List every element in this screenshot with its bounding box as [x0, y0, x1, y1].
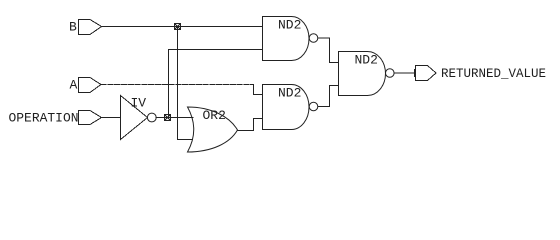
svg-text:ND2: ND2 — [278, 85, 301, 100]
wire inverter output to OR2 upper input — [156, 117, 193, 119]
wire OR2 output to U2 lower input — [238, 119, 263, 131]
nand U2 (middle ND2) — [263, 85, 292, 130]
port RETURNED_VALUE — [416, 66, 437, 81]
node junction J1 on net B — [175, 24, 181, 30]
svg-text:ND2: ND2 — [278, 17, 301, 32]
svg-text:A: A — [70, 78, 78, 93]
svg-text:RETURNED_VALUE: RETURNED_VALUE — [441, 66, 546, 81]
wire OPERATION to inverter — [102, 117, 121, 119]
wire net B horizontal — [102, 26, 263, 28]
node junction J2 on inverter output — [165, 115, 171, 121]
inverter IV bubble — [147, 113, 156, 122]
nand U1 bubble — [309, 34, 318, 43]
inverter IV — [121, 96, 148, 140]
wire U2 output to U3 lower input — [318, 86, 339, 107]
wire U1 output to U3 upper input — [318, 38, 339, 63]
svg-text:OR2: OR2 — [203, 108, 226, 123]
svg-text:OPERATION: OPERATION — [9, 111, 79, 126]
nand U1 (top ND2) — [263, 17, 292, 61]
or-gate OR2 — [188, 107, 238, 152]
port RETURNED_VALUE tick — [414, 70, 416, 77]
wire net A (dashed) — [101, 84, 254, 86]
wire net B vertical to OR2 lower input — [178, 27, 193, 140]
nand U2 bubble — [309, 102, 318, 111]
wire inverter output up to U1 lower input — [169, 50, 263, 118]
nand U3 (output ND2) — [339, 52, 368, 96]
wire U3 output to port — [394, 72, 414, 74]
port B — [79, 20, 102, 35]
svg-text:IV: IV — [131, 96, 147, 111]
wire net A step down to U2 input — [254, 85, 263, 95]
port OPERATION — [79, 111, 102, 125]
svg-text:ND2: ND2 — [355, 52, 378, 67]
nand U3 bubble — [386, 69, 395, 78]
port A — [79, 78, 102, 93]
svg-text:B: B — [69, 20, 77, 35]
